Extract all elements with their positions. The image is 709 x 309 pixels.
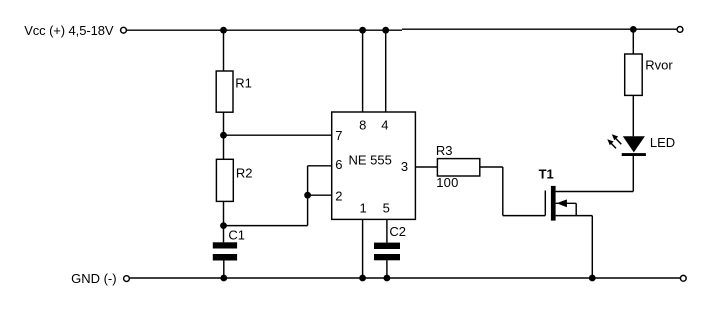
svg-text:C1: C1 [228,228,245,243]
junction pin4/top rail [382,27,389,34]
svg-text:C2: C2 [389,224,406,239]
wire R3 to gate horizontal [480,166,503,168]
wire node7 to pin 7 [224,134,332,136]
LED D1 cathode bar [622,153,646,156]
LED D1 triangle [623,136,645,152]
junction pin2/pin6 [304,192,311,199]
wire drain to LED [632,156,634,192]
wire pin 4 to Vcc [385,30,387,112]
wire top rail Vcc right [402,28,677,30]
wire threshold horizontal [224,225,308,227]
wire bottom rail GND [129,277,680,279]
resistor Rvor [625,54,643,95]
junction pin1/GND [359,275,366,282]
wire gate vertical [502,167,504,216]
junction source/GND [589,275,596,282]
wire to pin 6 [308,165,332,167]
capacitor C2 [374,243,400,261]
terminal GND right [680,275,686,281]
wire Vcc to R1 [223,30,225,71]
wire R1 to R2 [223,112,225,159]
transistor T1 gate line [544,191,546,216]
svg-text:6: 6 [335,157,342,172]
wire C1 to GND [223,261,225,279]
svg-text:R2: R2 [236,166,253,181]
resistor R3 [437,159,479,176]
terminal GND left [124,276,130,282]
wire drain [556,191,634,193]
svg-text:Rvor: Rvor [645,57,673,72]
terminal Vcc right [677,27,683,33]
junction top rail / R1 [220,27,227,34]
wire pin 1 to GND [362,219,364,278]
junction top rail / Rvor [630,26,637,33]
wire threshold vertical [307,166,309,226]
LED arrow 2 [607,139,616,148]
junction R1/R2/pin7 [220,132,227,139]
svg-text:1: 1 [360,201,367,216]
junction C1/GND [220,275,227,282]
wire R2 to C1 [223,201,225,242]
terminal Vcc left [121,27,127,33]
wire to pin 2 [308,194,332,196]
svg-text:R3: R3 [436,143,453,158]
svg-text:100: 100 [436,175,458,190]
svg-text:R1: R1 [235,76,252,91]
op-amp U1 NE555 body [332,112,416,219]
svg-text:3: 3 [401,159,408,174]
resistor R2 [216,159,233,201]
svg-text:2: 2 [335,189,342,204]
wire pin 3 to R3 [415,166,437,168]
wire pin 5 to C2 [386,219,388,242]
resistor R1 [216,71,233,112]
wire pin 8 to Vcc [362,30,364,112]
svg-text:5: 5 [383,201,390,216]
wire Vcc to Rvor [632,29,634,54]
svg-text:LED: LED [650,135,675,150]
transistor T1 body arrow [556,199,577,207]
wire C2 to GND [386,260,388,278]
transistor T1 channel bar [551,186,556,221]
wire body to source [575,203,577,215]
wire top rail Vcc left [126,29,402,31]
wire source to GND [591,216,593,278]
svg-text:GND (-): GND (-) [71,271,117,286]
junction pin8/top rail [359,27,366,34]
capacitor C1 [213,242,237,260]
junction C2/GND [384,275,391,282]
LED arrow 1 [612,134,622,144]
svg-text:NE 555: NE 555 [349,153,392,168]
wire Rvor to LED [632,95,634,136]
svg-text:T1: T1 [539,167,554,182]
junction R2/C1/threshold [220,222,227,229]
svg-text:4: 4 [381,118,388,133]
wire to gate [503,215,546,217]
svg-text:Vcc (+) 4,5-18V: Vcc (+) 4,5-18V [24,23,114,38]
wire source [556,215,593,217]
svg-text:8: 8 [359,118,366,133]
svg-text:7: 7 [335,128,342,143]
